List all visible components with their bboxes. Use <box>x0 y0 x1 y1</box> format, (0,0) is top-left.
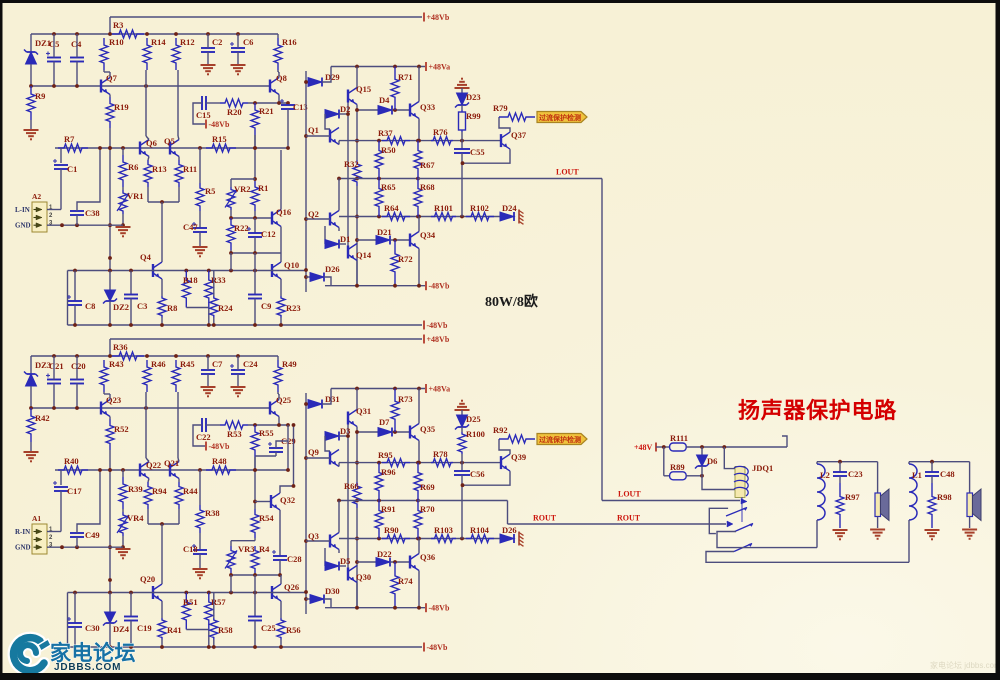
svg-text:C18: C18 <box>183 544 198 554</box>
svg-text:D5: D5 <box>340 556 350 566</box>
svg-text:R64: R64 <box>384 203 399 213</box>
svg-text:Q16: Q16 <box>276 207 291 217</box>
svg-text:+48Va: +48Va <box>429 385 451 394</box>
svg-text:D25: D25 <box>466 414 481 424</box>
svg-text:C28: C28 <box>287 554 302 564</box>
svg-text:家电论坛 jdbbs.com: 家电论坛 jdbbs.com <box>930 660 1000 670</box>
svg-text:C17: C17 <box>67 486 82 496</box>
svg-text:过流保护检测: 过流保护检测 <box>539 435 581 444</box>
svg-text:R90: R90 <box>384 525 399 535</box>
svg-text:A1: A1 <box>32 514 41 523</box>
svg-text:DZ4: DZ4 <box>113 624 130 634</box>
svg-text:C15: C15 <box>196 110 211 120</box>
svg-text:R111: R111 <box>670 433 688 443</box>
svg-text:C48: C48 <box>940 469 955 479</box>
svg-text:R50: R50 <box>381 145 396 155</box>
svg-text:R51: R51 <box>183 597 198 607</box>
svg-text:Q4: Q4 <box>140 252 152 262</box>
svg-text:R102: R102 <box>470 203 489 213</box>
svg-text:R45: R45 <box>180 359 195 369</box>
svg-text:扬声器保护电路: 扬声器保护电路 <box>738 398 897 423</box>
svg-text:R24: R24 <box>218 303 233 313</box>
svg-text:L2: L2 <box>820 470 830 480</box>
svg-text:R32: R32 <box>344 159 359 169</box>
svg-text:R21: R21 <box>259 106 274 116</box>
svg-text:C55: C55 <box>470 147 485 157</box>
svg-text:C47: C47 <box>183 222 198 232</box>
svg-text:R79: R79 <box>493 103 508 113</box>
svg-text:C1: C1 <box>67 164 77 174</box>
svg-text:VR2: VR2 <box>234 184 251 194</box>
svg-text:R12: R12 <box>180 37 195 47</box>
svg-text:Q21: Q21 <box>164 458 179 468</box>
svg-text:D22: D22 <box>377 549 392 559</box>
svg-text:D31: D31 <box>325 394 340 404</box>
svg-text:D1: D1 <box>340 234 350 244</box>
svg-text:R95: R95 <box>378 450 393 460</box>
svg-text:Q35: Q35 <box>420 424 435 434</box>
svg-text:R70: R70 <box>420 504 435 514</box>
svg-text:C12: C12 <box>261 229 276 239</box>
svg-text:Q6: Q6 <box>146 138 157 148</box>
svg-text:C25: C25 <box>261 623 276 633</box>
svg-text:D30: D30 <box>325 586 340 596</box>
svg-text:C38: C38 <box>85 208 100 218</box>
svg-text:A2: A2 <box>32 192 41 201</box>
svg-text:R99: R99 <box>466 111 481 121</box>
svg-text:Q39: Q39 <box>511 452 526 462</box>
svg-text:R92: R92 <box>493 425 508 435</box>
svg-text:Q20: Q20 <box>140 574 155 584</box>
svg-text:R69: R69 <box>420 482 435 492</box>
svg-text:D7: D7 <box>379 417 390 427</box>
svg-text:R37: R37 <box>378 128 393 138</box>
svg-text:R49: R49 <box>282 359 297 369</box>
svg-text:C7: C7 <box>212 359 223 369</box>
svg-text:R11: R11 <box>183 164 197 174</box>
svg-text:R76: R76 <box>433 127 448 137</box>
svg-text:VR1: VR1 <box>127 191 144 201</box>
svg-text:R58: R58 <box>218 625 233 635</box>
svg-text:R7: R7 <box>64 134 75 144</box>
svg-text:-48Vb: -48Vb <box>209 442 230 451</box>
svg-text:C23: C23 <box>848 469 863 479</box>
svg-text:DZ2: DZ2 <box>113 302 129 312</box>
svg-text:R1: R1 <box>258 183 268 193</box>
svg-text:R6: R6 <box>128 162 138 172</box>
svg-text:R68: R68 <box>420 182 435 192</box>
svg-text:+48Vb: +48Vb <box>427 13 450 22</box>
svg-text:-48Vb: -48Vb <box>429 604 450 613</box>
svg-text:R20: R20 <box>227 107 242 117</box>
svg-text:R89: R89 <box>670 462 685 472</box>
svg-text:C56: C56 <box>470 469 485 479</box>
svg-text:-48Vb: -48Vb <box>429 282 450 291</box>
svg-text:JDBBS.COM: JDBBS.COM <box>54 662 121 673</box>
svg-text:ROUT: ROUT <box>617 514 641 523</box>
svg-text:R39: R39 <box>128 484 143 494</box>
svg-text:ROUT: ROUT <box>533 514 557 523</box>
svg-text:R103: R103 <box>434 525 453 535</box>
svg-text:L1: L1 <box>912 470 922 480</box>
svg-text:Q34: Q34 <box>420 230 436 240</box>
svg-text:R19: R19 <box>114 102 129 112</box>
svg-text:R40: R40 <box>64 456 79 466</box>
svg-text:C24: C24 <box>243 359 258 369</box>
svg-text:C8: C8 <box>85 301 95 311</box>
svg-text:Q3: Q3 <box>308 531 319 541</box>
svg-text:Q36: Q36 <box>420 552 435 562</box>
svg-text:Q32: Q32 <box>280 495 295 505</box>
svg-text:D26: D26 <box>502 525 517 535</box>
svg-text:-48Vb: -48Vb <box>427 321 448 330</box>
svg-text:Q5: Q5 <box>164 136 175 146</box>
svg-text:JDQ1: JDQ1 <box>752 463 773 473</box>
svg-text:R56: R56 <box>286 625 301 635</box>
svg-text:R36: R36 <box>113 342 128 352</box>
svg-text:R13: R13 <box>152 164 167 174</box>
svg-text:Q9: Q9 <box>308 447 319 457</box>
svg-text:GND: GND <box>15 222 31 230</box>
svg-text:D26: D26 <box>325 264 340 274</box>
svg-text:R78: R78 <box>433 449 448 459</box>
svg-text:Q14: Q14 <box>356 250 372 260</box>
svg-text:R65: R65 <box>381 182 396 192</box>
svg-text:R4: R4 <box>259 544 270 554</box>
svg-text:-48Vb: -48Vb <box>209 120 230 129</box>
svg-text:R52: R52 <box>114 424 129 434</box>
svg-text:R-IN: R-IN <box>15 528 30 536</box>
svg-text:LOUT: LOUT <box>556 168 579 177</box>
svg-text:R101: R101 <box>434 203 453 213</box>
svg-text:+48Va: +48Va <box>429 63 451 72</box>
svg-text:+48Vb: +48Vb <box>427 335 450 344</box>
svg-text:R98: R98 <box>937 492 952 502</box>
svg-text:80W/8欧: 80W/8欧 <box>485 293 538 310</box>
svg-text:C30: C30 <box>85 623 100 633</box>
svg-text:R94: R94 <box>152 486 167 496</box>
svg-text:R10: R10 <box>109 37 124 47</box>
svg-text:R73: R73 <box>398 394 413 404</box>
svg-text:C20: C20 <box>71 361 86 371</box>
svg-text:-48Vb: -48Vb <box>427 643 448 652</box>
svg-text:Q8: Q8 <box>276 73 287 83</box>
svg-text:R53: R53 <box>227 429 242 439</box>
svg-text:VR4: VR4 <box>127 513 144 523</box>
svg-text:C2: C2 <box>212 37 222 47</box>
svg-text:R46: R46 <box>151 359 166 369</box>
svg-text:Q30: Q30 <box>356 572 371 582</box>
svg-text:C22: C22 <box>196 432 211 442</box>
svg-text:Q31: Q31 <box>356 406 371 416</box>
svg-text:R15: R15 <box>212 134 227 144</box>
svg-text:R104: R104 <box>470 525 490 535</box>
svg-text:C21: C21 <box>49 361 64 371</box>
svg-text:R91: R91 <box>381 504 396 514</box>
svg-text:Q25: Q25 <box>276 395 291 405</box>
svg-text:R55: R55 <box>259 428 274 438</box>
svg-text:GND: GND <box>15 544 31 552</box>
svg-text:D23: D23 <box>466 92 481 102</box>
svg-text:R66: R66 <box>344 481 359 491</box>
svg-text:L-IN: L-IN <box>15 206 30 214</box>
svg-text:Q1: Q1 <box>308 125 319 135</box>
svg-text:R3: R3 <box>113 20 123 30</box>
svg-text:Q37: Q37 <box>511 130 527 140</box>
svg-text:R14: R14 <box>151 37 166 47</box>
svg-text:R74: R74 <box>398 576 413 586</box>
svg-text:LOUT: LOUT <box>618 490 641 499</box>
svg-text:Q33: Q33 <box>420 102 435 112</box>
svg-text:R67: R67 <box>420 160 435 170</box>
svg-text:R41: R41 <box>167 625 182 635</box>
svg-text:R22: R22 <box>234 223 249 233</box>
svg-text:Q15: Q15 <box>356 84 371 94</box>
svg-text:C9: C9 <box>261 301 271 311</box>
svg-text:R48: R48 <box>212 456 227 466</box>
svg-text:R100: R100 <box>466 429 485 439</box>
svg-text:Q10: Q10 <box>284 260 299 270</box>
svg-text:R42: R42 <box>35 413 50 423</box>
svg-text:R16: R16 <box>282 37 297 47</box>
svg-text:Q7: Q7 <box>106 73 118 83</box>
svg-text:R43: R43 <box>109 359 124 369</box>
svg-text:D21: D21 <box>377 227 392 237</box>
svg-text:D4: D4 <box>379 95 390 105</box>
svg-text:D29: D29 <box>325 72 340 82</box>
svg-text:VR3: VR3 <box>238 544 255 554</box>
svg-text:R72: R72 <box>398 254 413 264</box>
svg-text:D6: D6 <box>707 456 717 466</box>
svg-text:Q2: Q2 <box>308 209 319 219</box>
svg-text:Q23: Q23 <box>106 395 121 405</box>
svg-text:R18: R18 <box>183 275 198 285</box>
svg-text:D24: D24 <box>502 203 517 213</box>
svg-text:R8: R8 <box>167 303 177 313</box>
svg-text:R44: R44 <box>183 486 198 496</box>
svg-text:R9: R9 <box>35 91 45 101</box>
svg-text:R5: R5 <box>205 186 215 196</box>
svg-text:R54: R54 <box>259 513 274 523</box>
svg-text:C6: C6 <box>243 37 253 47</box>
svg-text:R23: R23 <box>286 303 301 313</box>
svg-text:R71: R71 <box>398 72 413 82</box>
svg-text:C3: C3 <box>137 301 147 311</box>
svg-text:R96: R96 <box>381 467 396 477</box>
svg-text:C49: C49 <box>85 530 100 540</box>
svg-text:R97: R97 <box>845 492 860 502</box>
svg-text:过流保护检测: 过流保护检测 <box>539 113 581 122</box>
svg-text:R38: R38 <box>205 508 220 518</box>
svg-text:C19: C19 <box>137 623 152 633</box>
svg-text:Q26: Q26 <box>284 582 299 592</box>
svg-text:+48V: +48V <box>634 443 653 452</box>
